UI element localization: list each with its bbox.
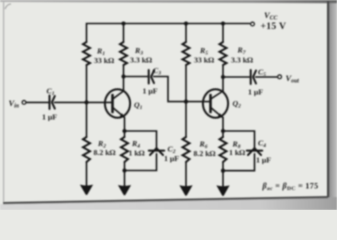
wire loop2 to ground [222, 171, 224, 189]
svg-text:1 μF: 1 μF [143, 87, 158, 96]
node Q1 base junction [84, 100, 88, 104]
wire C4 loop bottom [223, 154, 255, 171]
ground below R8 [216, 185, 229, 196]
wire R5 branch stub [185, 24, 187, 43]
node Q2 emitter junction [221, 129, 225, 133]
node rail-R3 junction [121, 21, 125, 25]
resistor R1 [83, 42, 90, 65]
wire C4 loop top [223, 131, 255, 149]
ground below R2 [80, 185, 93, 195]
terminal VCC [251, 22, 255, 26]
svg-text:8.2 kΩ: 8.2 kΩ [194, 149, 216, 158]
wire R3 branch stub [123, 24, 125, 43]
terminal Vout [278, 75, 282, 79]
node R4 ground junction [122, 168, 126, 172]
svg-text:1 kΩ: 1 kΩ [229, 148, 245, 157]
shadow below frame [0, 197, 337, 210]
wire Q1 collector to C3 [124, 76, 149, 78]
wire Q2 emitter [222, 117, 224, 131]
wire Vin to C1 [26, 101, 48, 103]
svg-text:33 kΩ: 33 kΩ [194, 56, 214, 65]
resistor R8 [220, 137, 227, 162]
svg-text:1 μF: 1 μF [248, 88, 263, 97]
wire R1 to base node [86, 65, 88, 137]
ground below R6 [179, 185, 192, 196]
terminal Vin [22, 101, 26, 105]
resistor R7 [220, 42, 227, 65]
node Q1 collector junction [121, 74, 125, 78]
node R8 ground junction [221, 169, 225, 173]
node Q2 collector junction [221, 75, 225, 79]
capacitor C1 [50, 96, 55, 110]
node Q1 emitter junction [122, 129, 126, 133]
wire R8 leads [222, 131, 224, 171]
wire Q1 emitter [124, 117, 126, 131]
wire R2 to ground [86, 162, 88, 188]
transistor Q2 [203, 89, 228, 118]
wire R7 branch stub [222, 24, 224, 43]
svg-text:8.2 kΩ: 8.2 kΩ [94, 148, 116, 157]
shadow right of frame [329, 0, 337, 198]
wire C3 to Q2 base [154, 77, 211, 102]
svg-text:1 μF: 1 μF [164, 154, 179, 163]
wire loop1 to ground [124, 171, 126, 189]
node Q2 base junction [184, 100, 188, 104]
capacitor C3 [149, 70, 154, 84]
capacitor C4 [247, 148, 262, 155]
resistor R3 [120, 42, 127, 65]
svg-text:1 kΩ: 1 kΩ [129, 149, 145, 158]
svg-text:1 μF: 1 μF [256, 156, 271, 165]
capacitor C2 [149, 148, 164, 155]
border frame left [3, 2, 4, 203]
svg-text:3.3 kΩ: 3.3 kΩ [130, 56, 152, 65]
resistor R6 [183, 137, 190, 162]
border frame bottom [3, 196, 328, 204]
wire C2 loop bottom [125, 154, 157, 171]
capacitor C5 [251, 70, 256, 84]
wire VCC top rail [87, 24, 250, 43]
scan artifact top-left corner [5, 4, 11, 9]
transistor Q1 [105, 89, 130, 118]
node rail-R7 junction [221, 21, 225, 25]
resistor R2 [83, 137, 90, 162]
wire R4 leads [124, 131, 126, 171]
wire R3 to Q1 collector [123, 65, 125, 91]
wire C2 loop top [125, 131, 157, 149]
resistor R4 [121, 137, 128, 162]
svg-text:33 kΩ: 33 kΩ [94, 56, 114, 65]
svg-text:3.3 kΩ: 3.3 kΩ [231, 56, 253, 65]
border frame top [0, 0, 337, 3]
resistor R5 [183, 42, 190, 65]
wire Q2 collector to C5 [223, 76, 250, 78]
wire R5 to R6 [185, 65, 187, 137]
ground below R4 [118, 185, 131, 195]
border frame right [327, 1, 329, 198]
wire C5 to Vout [256, 76, 278, 78]
svg-text:1 μF: 1 μF [42, 113, 57, 122]
wire C1 to base node [55, 101, 87, 103]
wire R7 to Q2 collector [222, 65, 224, 91]
svg-text:+15 V: +15 V [261, 21, 287, 32]
wire base node to Q1 base [87, 101, 113, 103]
wire R6 to ground [185, 162, 187, 189]
node rail-R5 junction [184, 21, 188, 25]
